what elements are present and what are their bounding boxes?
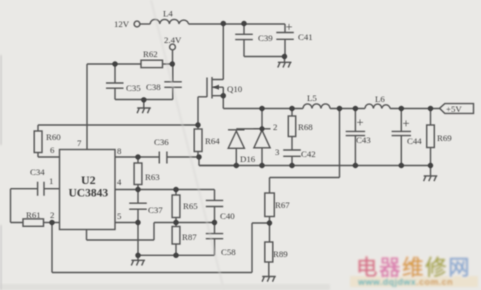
svg-text:C36: C36 (154, 137, 169, 147)
svg-text:2: 2 (50, 210, 54, 220)
node R62 right 2.4V junction (170, 61, 175, 66)
capacitor C58 (206, 223, 223, 256)
svg-text:2: 2 (273, 122, 277, 132)
node D16 right anode junction (259, 163, 264, 168)
node R65 R87 junction (173, 220, 178, 225)
wire C35 C38 bottom (115, 99, 173, 101)
capacitor C38 (164, 64, 182, 100)
svg-text:C38: C38 (146, 82, 161, 92)
node pin4 R65 junction (173, 187, 178, 192)
svg-text:C37: C37 (148, 205, 163, 215)
scan scratch artifact (151, 0, 224, 290)
capacitor C34 (11, 182, 60, 196)
wire R60 stubs pin6 (38, 125, 60, 157)
resistor R64 (194, 129, 202, 152)
svg-text:4: 4 (117, 177, 122, 187)
resistor R69 (427, 125, 435, 148)
node D16 left anode junction (234, 163, 239, 168)
resistor R67 (265, 193, 275, 217)
node C39 top junction (241, 21, 246, 26)
wire source down to secondary rail (222, 96, 224, 109)
diode D16 right half (254, 109, 271, 166)
node 12V input terminal (134, 21, 140, 27)
node C44 bottom junction (399, 163, 404, 168)
node pin8 R63 junction (135, 154, 140, 159)
wire pin8 row (115, 156, 159, 158)
node C35 C38 ground junction (141, 97, 146, 102)
ground at rail right end (424, 166, 438, 182)
node 2.4V terminal (170, 44, 176, 50)
node R62 left junction (112, 61, 117, 66)
svg-text:5: 5 (117, 211, 122, 221)
wire gnd bottom row to C58 (138, 254, 215, 256)
transistor Q10 arrow (213, 85, 219, 90)
node gate drive R64 junction (195, 122, 200, 127)
svg-text:R61: R61 (26, 210, 41, 220)
svg-text:R68: R68 (298, 122, 313, 132)
wire 2.4V terminal down to R62 node (172, 50, 174, 64)
capacitor C42 (283, 150, 301, 166)
node drain top rail junction (221, 21, 226, 26)
svg-text:R87: R87 (182, 232, 197, 242)
svg-text:C40: C40 (220, 211, 235, 221)
node C44 top junction (399, 106, 404, 111)
wire R62 right to node (163, 63, 173, 65)
node R67 R89 junction (267, 220, 272, 225)
wire secondary rail segments (223, 108, 439, 110)
capacitor C43 polarized (346, 109, 365, 166)
node feedback tap junction (337, 106, 342, 111)
wire R67 bottom stub (269, 217, 271, 224)
svg-text:L6: L6 (375, 94, 385, 104)
wire R67 R89 node stub (269, 223, 271, 242)
node C42 bottom junction (289, 163, 294, 168)
ground under R89 (262, 277, 276, 282)
wire 12V terminal to L4 (140, 23, 150, 25)
resistor R63 (134, 163, 142, 185)
wire C39 C41 bottom (244, 56, 285, 58)
node D16 cathode link junction (260, 126, 265, 131)
capacitor C36 (159, 152, 167, 164)
capacitor C41 polarized (276, 24, 294, 57)
svg-text:7: 7 (77, 138, 82, 148)
svg-text:8: 8 (117, 146, 122, 156)
svg-text:R62: R62 (143, 49, 158, 59)
node C43 top junction (353, 106, 358, 111)
svg-text:R64: R64 (205, 136, 220, 146)
svg-text:R60: R60 (46, 132, 61, 142)
svg-text:+: + (403, 117, 410, 131)
capacitor C39 (235, 24, 253, 57)
scan edge artifacts (0, 284, 330, 290)
wire R64 stubs (197, 125, 199, 157)
capacitor C40 (206, 200, 223, 222)
wire U2 bottom zigzag (87, 223, 177, 241)
wire R65 stubs (175, 190, 177, 223)
wire bottom secondary rail (199, 165, 431, 167)
svg-text:+5V: +5V (446, 104, 462, 114)
node ground rail left junction (135, 253, 140, 258)
svg-text:L5: L5 (307, 93, 317, 103)
svg-text:C44: C44 (407, 136, 422, 146)
capacitor C44 polarized (392, 109, 411, 166)
node pin5 C37 junction (135, 220, 140, 225)
svg-text:R89: R89 (273, 249, 288, 259)
svg-text:1: 1 (49, 176, 53, 186)
capacitor C37 (129, 190, 147, 223)
wire R68 stubs (291, 109, 293, 150)
svg-text:www.dqjdwx.com.cn: www.dqjdwx.com.cn (357, 277, 453, 287)
svg-text:+: + (286, 20, 293, 34)
resistor R62 (141, 60, 163, 67)
wire C37 down to gnd rail (137, 223, 139, 256)
wire R87 stubs (175, 223, 177, 256)
node +5V output tag (440, 104, 474, 114)
wire R89 bottom stub (268, 262, 270, 276)
svg-text:C42: C42 (301, 149, 316, 159)
node C43 bottom junction (353, 163, 358, 168)
wire top rail L4 to C41 (189, 23, 286, 25)
svg-text:6: 6 (50, 145, 55, 155)
diode D16 left half (228, 129, 262, 166)
svg-text:U2: U2 (81, 173, 96, 187)
ground under C41 (278, 57, 292, 68)
svg-text:C39: C39 (258, 33, 273, 43)
resistor R61 (23, 219, 44, 226)
svg-text:R63: R63 (145, 172, 160, 182)
node R69 bottom ground junction (428, 163, 433, 168)
node R68 top junction (289, 106, 294, 111)
wire R62 row left segment (87, 63, 141, 65)
wire gate drive row (38, 124, 198, 126)
wire pin2 node down and bottom feedback rail (52, 223, 270, 273)
svg-text:3: 3 (275, 147, 280, 157)
svg-text:R67: R67 (275, 200, 290, 210)
svg-text:C58: C58 (221, 247, 236, 257)
inductor L5 (303, 104, 330, 109)
watermark (350, 255, 478, 287)
node R69 top junction (428, 106, 433, 111)
wire pin5 row (115, 222, 138, 224)
node R87 bottom junction (173, 253, 178, 258)
wire VCC drop to pin7 (86, 64, 88, 150)
wire pin4 row (115, 190, 215, 201)
node C40 C58 junction (212, 220, 217, 225)
transistor Q10 mosfet (198, 77, 223, 125)
svg-text:L4: L4 (163, 9, 173, 19)
svg-text:2.4V: 2.4V (164, 35, 182, 45)
resistor R65 (172, 195, 180, 218)
ground under pin5 rail (131, 255, 145, 265)
resistor R87 (172, 227, 180, 245)
wire left loop down (11, 189, 24, 223)
wire R64 bottom to D16 rail (199, 157, 236, 166)
svg-text:UC3843: UC3843 (69, 188, 109, 200)
svg-text:D16: D16 (240, 154, 256, 164)
node R64 bottom C36 junction (196, 154, 201, 159)
wire R63 stubs (137, 157, 139, 190)
wire C36 to R64 node (167, 156, 199, 158)
svg-text:+: + (357, 116, 364, 130)
wire R61 to pin2 (44, 222, 60, 224)
wire drain drop from rail (222, 24, 224, 80)
svg-text:Q10: Q10 (227, 84, 243, 94)
inductor L4 (150, 19, 188, 24)
wire mid row C40 to R65 R87 node (176, 222, 215, 224)
svg-text:R69: R69 (437, 133, 452, 143)
node pin2 R61 junction (49, 220, 54, 225)
ground under C35 C38 (137, 100, 151, 114)
wire R69 stubs (430, 109, 432, 166)
node pin4 C37 junction (135, 187, 140, 192)
inductor L6 (365, 104, 390, 108)
svg-text:C35: C35 (126, 83, 141, 93)
svg-text:C43: C43 (356, 135, 371, 145)
op-amp U2 box UC3843 (60, 150, 116, 230)
svg-text:C34: C34 (30, 167, 45, 177)
node Q10 source junction (221, 93, 226, 98)
resistor R68 (288, 116, 295, 137)
resistor R60 (34, 131, 42, 153)
node D16 cathode rail junction (259, 106, 264, 111)
svg-text:12V: 12V (114, 19, 130, 29)
node C39 C41 ground junction (282, 54, 287, 59)
svg-text:R65: R65 (183, 201, 198, 211)
capacitor C35 (106, 64, 124, 100)
svg-text:C41: C41 (298, 32, 313, 42)
wire feedback tap from L5 L6 node (270, 109, 340, 194)
resistor R89 (265, 242, 273, 262)
